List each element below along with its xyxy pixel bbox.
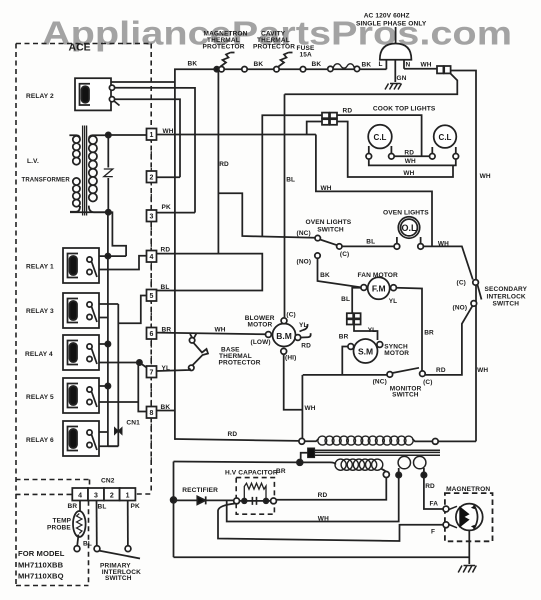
svg-text:WH: WH bbox=[321, 185, 332, 192]
svg-text:BR: BR bbox=[162, 327, 172, 334]
svg-text:RD: RD bbox=[436, 367, 446, 374]
node bus relay4 junction bbox=[105, 341, 110, 346]
temp probe element bbox=[77, 514, 83, 534]
wire neutral top run to line filter bbox=[285, 74, 458, 95]
svg-text:RD: RD bbox=[343, 108, 353, 115]
svg-text:(NC): (NC) bbox=[373, 379, 387, 386]
wire RD secondary interlock NO to monitor C bbox=[425, 306, 472, 375]
svg-text:RD: RD bbox=[425, 483, 435, 490]
wire RD branch to oven lights switch NC bbox=[218, 193, 315, 237]
svg-text:WH: WH bbox=[305, 405, 316, 412]
HV secondary terminal bbox=[383, 472, 389, 478]
svg-text:1: 1 bbox=[150, 132, 154, 139]
wire CN1 pin1 WH neutral run bbox=[157, 134, 316, 136]
monitor switch arm bbox=[392, 368, 419, 373]
svg-text:WH: WH bbox=[480, 173, 491, 180]
node BK line RD tap bbox=[214, 67, 219, 72]
wire RD riser from BK line to pin4 bbox=[217, 69, 219, 253]
motor S.M synchronous bbox=[348, 339, 383, 363]
svg-text:F.M: F.M bbox=[372, 284, 386, 294]
wire CN1 pin8 BK bbox=[157, 410, 175, 412]
wire relay5 NO to bus bbox=[99, 385, 108, 387]
monitor switch NC contact bbox=[387, 372, 393, 378]
surge suppressor Z across transformer secondary bbox=[107, 135, 109, 212]
svg-text:OVEN LIGHTS: OVEN LIGHTS bbox=[306, 219, 352, 226]
svg-text:WH: WH bbox=[163, 128, 174, 135]
svg-text:2: 2 bbox=[150, 175, 154, 182]
svg-text:RD: RD bbox=[161, 247, 171, 254]
chassis ground magnetron bbox=[458, 566, 476, 573]
wire monitor NC riser to primary feed bbox=[301, 375, 303, 439]
svg-text:FAN MOTOR: FAN MOTOR bbox=[358, 272, 398, 279]
relay 3 bbox=[63, 293, 99, 328]
base thermal protector top contact bbox=[189, 338, 194, 343]
svg-text:PROBE: PROBE bbox=[47, 525, 71, 532]
svg-text:BR: BR bbox=[68, 503, 78, 510]
wire fan motor to BR riser bbox=[396, 288, 422, 371]
node filament right bbox=[421, 472, 426, 477]
wire blower motor capacitor pigtail bbox=[300, 324, 311, 338]
svg-text:OVEN LIGHTS: OVEN LIGHTS bbox=[383, 210, 429, 217]
wire magnetron cathode stem bbox=[468, 531, 470, 565]
wire relay5 NC to pin8 feed bbox=[99, 401, 138, 403]
wire oven lamp neutral riser bbox=[316, 135, 432, 247]
capacitor plates bbox=[252, 497, 256, 505]
oven lights switch NC contact bbox=[315, 235, 320, 240]
svg-text:TRANSFORMER: TRANSFORMER bbox=[22, 178, 71, 184]
svg-text:8: 8 bbox=[150, 410, 154, 417]
wire junction to CN1 pin7 bbox=[139, 363, 146, 368]
HV transformer primary left terminal bbox=[299, 438, 305, 444]
wire CN1 pin7 YL bbox=[157, 369, 191, 372]
relay 1 bbox=[63, 248, 99, 283]
wire pin1 jog up to lamp block bbox=[307, 122, 322, 135]
wire relay2 NC contact to pin2 riser bbox=[115, 99, 180, 177]
svg-text:1: 1 bbox=[126, 493, 130, 500]
L.V. transformer core bbox=[83, 126, 87, 216]
primary interlock right contact bbox=[125, 546, 131, 552]
wire BL oven switch C to oven lamp bbox=[342, 245, 394, 247]
wire transformer bottom lead jog to relay1 feed bbox=[70, 212, 126, 256]
svg-text:MOTOR: MOTOR bbox=[384, 350, 409, 357]
svg-text:RECTIFIER: RECTIFIER bbox=[182, 487, 218, 494]
svg-text:PK: PK bbox=[131, 503, 140, 510]
svg-text:BK: BK bbox=[161, 404, 171, 411]
svg-text:BK: BK bbox=[188, 61, 198, 68]
base thermal protector bottom contact bbox=[189, 365, 194, 370]
wire relay6 NC to interlock chain bbox=[99, 445, 118, 447]
core ground tab bbox=[308, 448, 315, 458]
base thermal protector link bbox=[190, 333, 197, 337]
svg-text:MH7110XBQ: MH7110XBQ bbox=[18, 572, 64, 581]
svg-text:YL: YL bbox=[299, 322, 308, 329]
magnetron dashed case bbox=[445, 493, 493, 541]
svg-text:BK: BK bbox=[320, 272, 330, 279]
svg-text:AC 120V 60HZ: AC 120V 60HZ bbox=[364, 13, 410, 20]
AC plug bbox=[395, 27, 397, 44]
relay 6 bbox=[63, 421, 99, 456]
connector block synch motor bbox=[347, 313, 361, 324]
svg-text:MH7110XBB: MH7110XBB bbox=[18, 561, 64, 570]
wire relay6 NO to bus bbox=[99, 431, 108, 433]
svg-text:(C): (C) bbox=[286, 312, 295, 319]
connector CN1 dashed spine bbox=[150, 140, 152, 462]
filament right leg to FA bbox=[424, 468, 443, 509]
motor F.M fan bbox=[361, 277, 397, 299]
node rectifier line tap bbox=[171, 497, 177, 503]
svg-text:FA: FA bbox=[430, 501, 439, 508]
HV capacitor internal line bbox=[240, 500, 271, 502]
wire core tab to secondary junction bbox=[301, 453, 308, 463]
wire N to line filter bbox=[404, 68, 437, 70]
node filament left bbox=[396, 472, 401, 477]
wire relay4 NO to bus bbox=[99, 343, 108, 345]
lamp O.L oven light bbox=[394, 217, 423, 249]
cavity thermal protector contacts bbox=[274, 67, 279, 72]
wire BR CN2-4 to temp probe bbox=[79, 501, 81, 512]
svg-text:L.V.: L.V. bbox=[27, 158, 39, 165]
wire relay4 NC to CN1 pin7 bbox=[99, 362, 139, 364]
svg-text:BL: BL bbox=[341, 296, 350, 303]
node HV secondary left junction bbox=[297, 460, 303, 466]
svg-text:(C): (C) bbox=[457, 280, 466, 287]
svg-text:2: 2 bbox=[110, 493, 114, 500]
wire CN1 pin3 PK bbox=[157, 212, 196, 214]
svg-text:YL: YL bbox=[368, 327, 377, 334]
svg-text:SECONDARY: SECONDARY bbox=[485, 286, 528, 293]
HV capacitor dashed case bbox=[236, 478, 274, 515]
svg-text:RD: RD bbox=[219, 161, 229, 168]
svg-text:RELAY 5: RELAY 5 bbox=[26, 394, 54, 401]
fuse 15A bbox=[328, 66, 333, 71]
wire relay common bus vertical bbox=[107, 212, 109, 446]
wire BL temp probe to interlock bbox=[77, 535, 78, 546]
CN1 pin numbers bbox=[150, 132, 154, 417]
wire staircase relay3 to CN1 pin5 bbox=[118, 296, 146, 324]
node bus relay5 junction bbox=[105, 383, 110, 388]
wire BR synch motor to monitor line bbox=[342, 347, 348, 375]
secondary interlock C contact bbox=[473, 280, 479, 286]
svg-text:(C): (C) bbox=[340, 251, 349, 258]
secondary interlock NO contact bbox=[471, 301, 477, 307]
svg-text:PROTECTOR: PROTECTOR bbox=[253, 44, 295, 51]
magnetron thermal protector element bbox=[221, 53, 235, 67]
wire interlock chain vertical with bowtie bbox=[117, 304, 119, 446]
svg-text:(NC): (NC) bbox=[297, 230, 311, 237]
secondary interlock arm bbox=[478, 285, 482, 300]
cavity thermal protector element bbox=[279, 53, 293, 67]
filament left leg to WH line bbox=[227, 468, 399, 522]
wire CN1 pin4 RD run bbox=[157, 254, 263, 291]
svg-text:RD: RD bbox=[404, 150, 414, 157]
wire relay3 NO contact riser bbox=[99, 303, 118, 305]
wire CN2-3 to interlock common bbox=[96, 501, 98, 546]
svg-text:BL: BL bbox=[83, 541, 92, 548]
wire blower HI to HV primary feed bbox=[284, 354, 303, 410]
wire RD branch up to lamp block bbox=[262, 115, 322, 236]
wire RD run to HV transformer primary bbox=[175, 439, 299, 441]
svg-text:SWITCH: SWITCH bbox=[392, 392, 419, 399]
node transformer top junction bbox=[106, 132, 111, 137]
wire WH main to primary right bbox=[438, 440, 476, 442]
svg-text:S.M: S.M bbox=[358, 347, 373, 357]
svg-text:CN2: CN2 bbox=[101, 478, 115, 485]
svg-text:MOTOR: MOTOR bbox=[248, 322, 273, 329]
L.V. transformer primary winding bbox=[69, 135, 80, 164]
svg-text:BL: BL bbox=[286, 177, 295, 184]
svg-text:BL: BL bbox=[366, 239, 375, 246]
plug ground lead GN bbox=[394, 60, 396, 82]
svg-text:L: L bbox=[379, 61, 383, 68]
magnetron thermal protector contacts bbox=[219, 67, 224, 72]
monitor switch C contact bbox=[420, 371, 426, 377]
HV transformer core bbox=[312, 450, 441, 455]
oven lights switch C contact bbox=[337, 244, 342, 249]
HV transformer primary winding bbox=[305, 439, 319, 441]
svg-text:BK: BK bbox=[312, 61, 322, 68]
svg-text:COOK TOP LIGHTS: COOK TOP LIGHTS bbox=[373, 106, 436, 113]
wire F feed from capacitor bbox=[218, 504, 443, 542]
svg-text:RD: RD bbox=[228, 431, 238, 438]
wire relay2 NO contact to pin3 riser bbox=[115, 88, 195, 213]
svg-text:(NO): (NO) bbox=[453, 305, 468, 312]
svg-text:BR: BR bbox=[276, 468, 286, 475]
base thermal protector arm bbox=[193, 343, 209, 366]
node transformer bottom junction bbox=[106, 210, 111, 215]
wire WH main line vertical bbox=[451, 71, 477, 442]
wire relay1 NC contact to CN1 pin4 bbox=[99, 256, 147, 270]
wire relay2 box to trunk bbox=[111, 81, 175, 83]
node bus relay1 junction bbox=[105, 254, 110, 259]
svg-text:YL: YL bbox=[162, 365, 171, 372]
wire PK CN2-1 down bbox=[127, 501, 129, 546]
filament winding bbox=[398, 456, 426, 468]
svg-text:N: N bbox=[406, 62, 411, 69]
temp probe body bbox=[73, 511, 86, 537]
blower motor B.M bbox=[266, 318, 301, 354]
wire monitor NC feed bbox=[303, 374, 387, 376]
svg-text:C.L: C.L bbox=[374, 133, 387, 142]
svg-text:F: F bbox=[431, 529, 435, 536]
svg-text:RELAY 4: RELAY 4 bbox=[25, 351, 53, 358]
HV capacitor left terminal bbox=[234, 498, 240, 504]
relay 5 bbox=[63, 378, 99, 413]
connector bowtie on interlock chain bbox=[115, 428, 123, 435]
wire pin8 feed vertical bbox=[138, 363, 146, 412]
wire CN1 pin6 BR and WH to blower LOW bbox=[157, 333, 266, 335]
wire bottom BK run bbox=[174, 556, 470, 558]
oven lights switch NO contact bbox=[315, 253, 320, 258]
HV transformer primary right terminal bbox=[432, 439, 438, 445]
line filter block bbox=[437, 66, 451, 73]
connector CN1 pin boxes bbox=[147, 129, 157, 419]
wire WH outer lamp return bbox=[369, 159, 456, 165]
svg-text:FOR MODEL: FOR MODEL bbox=[18, 549, 65, 558]
svg-text:GN: GN bbox=[397, 75, 407, 82]
oven lights switch arm bbox=[320, 240, 337, 246]
svg-text:BL: BL bbox=[161, 284, 170, 291]
relay 2 bbox=[75, 78, 120, 110]
svg-text:WH: WH bbox=[405, 158, 416, 165]
wire block RD feed to lamps bbox=[337, 115, 422, 156]
wire block WH return from lamps bbox=[337, 122, 453, 178]
chassis ground at plug bbox=[385, 84, 402, 90]
svg-text:SWITCH: SWITCH bbox=[317, 226, 344, 233]
svg-text:RD: RD bbox=[301, 343, 311, 350]
svg-text:BR: BR bbox=[339, 334, 349, 341]
L.V. transformer secondary winding bbox=[89, 135, 109, 212]
svg-text:YL: YL bbox=[389, 298, 398, 305]
plug prong N bbox=[403, 60, 405, 69]
svg-text:PROTECTOR: PROTECTOR bbox=[203, 44, 245, 51]
node capacitor resistor right bbox=[264, 499, 269, 504]
wire CN1 pin2 bbox=[157, 176, 181, 178]
wire relay1 NO contact to bus bbox=[99, 255, 126, 257]
svg-text:(C): (C) bbox=[423, 379, 432, 386]
wire RD secondary to capacitor line bbox=[277, 478, 387, 500]
wire secondary right lead to terminal bbox=[381, 468, 387, 471]
magnetron FA terminal bbox=[443, 506, 449, 512]
node capacitor resistor left bbox=[242, 499, 247, 504]
wire WH oven lamp to secondary interlock C bbox=[423, 246, 472, 279]
wire YL block to synch motor bbox=[354, 325, 378, 341]
ACE control board dashed enclosure bbox=[16, 44, 152, 586]
wire rectifier line bbox=[174, 499, 234, 501]
relay 4 bbox=[63, 335, 99, 370]
wire secondary left lead bbox=[174, 462, 336, 465]
connector CN2 pin boxes bbox=[72, 488, 135, 501]
wire HV ground trunk bbox=[173, 462, 175, 558]
svg-text:O.L: O.L bbox=[402, 223, 418, 233]
lamp C.L right bbox=[430, 125, 459, 159]
lamp C.L left bbox=[366, 125, 394, 159]
svg-text:4: 4 bbox=[78, 493, 82, 500]
connector block cook top lights bbox=[322, 113, 337, 125]
svg-text:RELAY 2: RELAY 2 bbox=[26, 93, 54, 100]
svg-text:15A: 15A bbox=[300, 52, 313, 59]
HV transformer secondary winding bbox=[335, 459, 383, 470]
svg-text:RELAY 1: RELAY 1 bbox=[26, 264, 54, 271]
bleed resistor bbox=[244, 483, 266, 501]
svg-text:TEMP: TEMP bbox=[53, 518, 72, 525]
svg-text:WH: WH bbox=[215, 327, 226, 334]
svg-text:MAGNETRON: MAGNETRON bbox=[446, 486, 490, 493]
svg-text:SWITCH: SWITCH bbox=[493, 301, 520, 308]
svg-text:5: 5 bbox=[150, 293, 154, 300]
svg-text:7: 7 bbox=[150, 370, 154, 377]
svg-text:BK: BK bbox=[254, 61, 264, 68]
svg-text:BR: BR bbox=[424, 330, 434, 337]
svg-text:(NO): (NO) bbox=[297, 259, 312, 266]
svg-text:RD: RD bbox=[318, 492, 328, 499]
wire RD between lamps bbox=[394, 155, 429, 157]
svg-text:SINGLE PHASE ONLY: SINGLE PHASE ONLY bbox=[356, 21, 427, 28]
svg-text:CN1: CN1 bbox=[126, 420, 140, 427]
magnetron tube bbox=[449, 504, 483, 531]
magnetron F terminal bbox=[443, 522, 449, 528]
svg-text:BK: BK bbox=[362, 62, 372, 69]
svg-text:WH: WH bbox=[403, 170, 414, 177]
primary interlock arm bbox=[99, 551, 140, 559]
svg-text:RELAY 6: RELAY 6 bbox=[26, 437, 54, 444]
svg-text:WH: WH bbox=[421, 62, 432, 69]
primary interlock left contact bbox=[74, 546, 80, 552]
primary interlock common contact bbox=[94, 546, 100, 552]
wire bus end link bbox=[108, 445, 118, 447]
svg-text:C.L: C.L bbox=[439, 133, 452, 142]
svg-text:6: 6 bbox=[150, 331, 154, 338]
rectifier diode bbox=[197, 496, 205, 504]
wire transformer top lead to CN1 pin1 bbox=[108, 134, 146, 136]
svg-text:WH: WH bbox=[477, 367, 488, 374]
wire BL fan to synch block bbox=[352, 288, 361, 314]
svg-text:3: 3 bbox=[94, 493, 98, 500]
wire main BK line corner and left trunk down to rectifier line bbox=[175, 69, 387, 440]
node pin7 feed junction bbox=[137, 360, 142, 365]
svg-text:3: 3 bbox=[150, 214, 154, 221]
svg-text:WH: WH bbox=[438, 241, 449, 248]
svg-text:(LOW): (LOW) bbox=[251, 339, 271, 346]
svg-text:RELAY 3: RELAY 3 bbox=[26, 308, 54, 315]
svg-text:ACE: ACE bbox=[69, 42, 91, 54]
wire relay3 NC to bus bbox=[99, 317, 108, 319]
plug prong L bbox=[385, 60, 387, 69]
svg-text:INTERLOCK: INTERLOCK bbox=[487, 293, 526, 300]
svg-text:H.V CAPACITOR: H.V CAPACITOR bbox=[225, 470, 278, 477]
svg-text:4: 4 bbox=[150, 254, 154, 261]
svg-text:PROTECTOR: PROTECTOR bbox=[219, 360, 261, 367]
wire BL line from neutral to blower motor bbox=[284, 94, 286, 317]
svg-text:WH: WH bbox=[318, 516, 329, 523]
wire BK oven switch NO to fan motor bbox=[318, 258, 361, 287]
svg-text:SWITCH: SWITCH bbox=[105, 575, 132, 582]
svg-text:BL: BL bbox=[98, 504, 107, 511]
svg-text:(HI): (HI) bbox=[285, 355, 296, 362]
HV capacitor right terminal bbox=[271, 498, 277, 504]
svg-text:PK: PK bbox=[162, 204, 171, 211]
svg-text:B.M: B.M bbox=[276, 331, 292, 341]
